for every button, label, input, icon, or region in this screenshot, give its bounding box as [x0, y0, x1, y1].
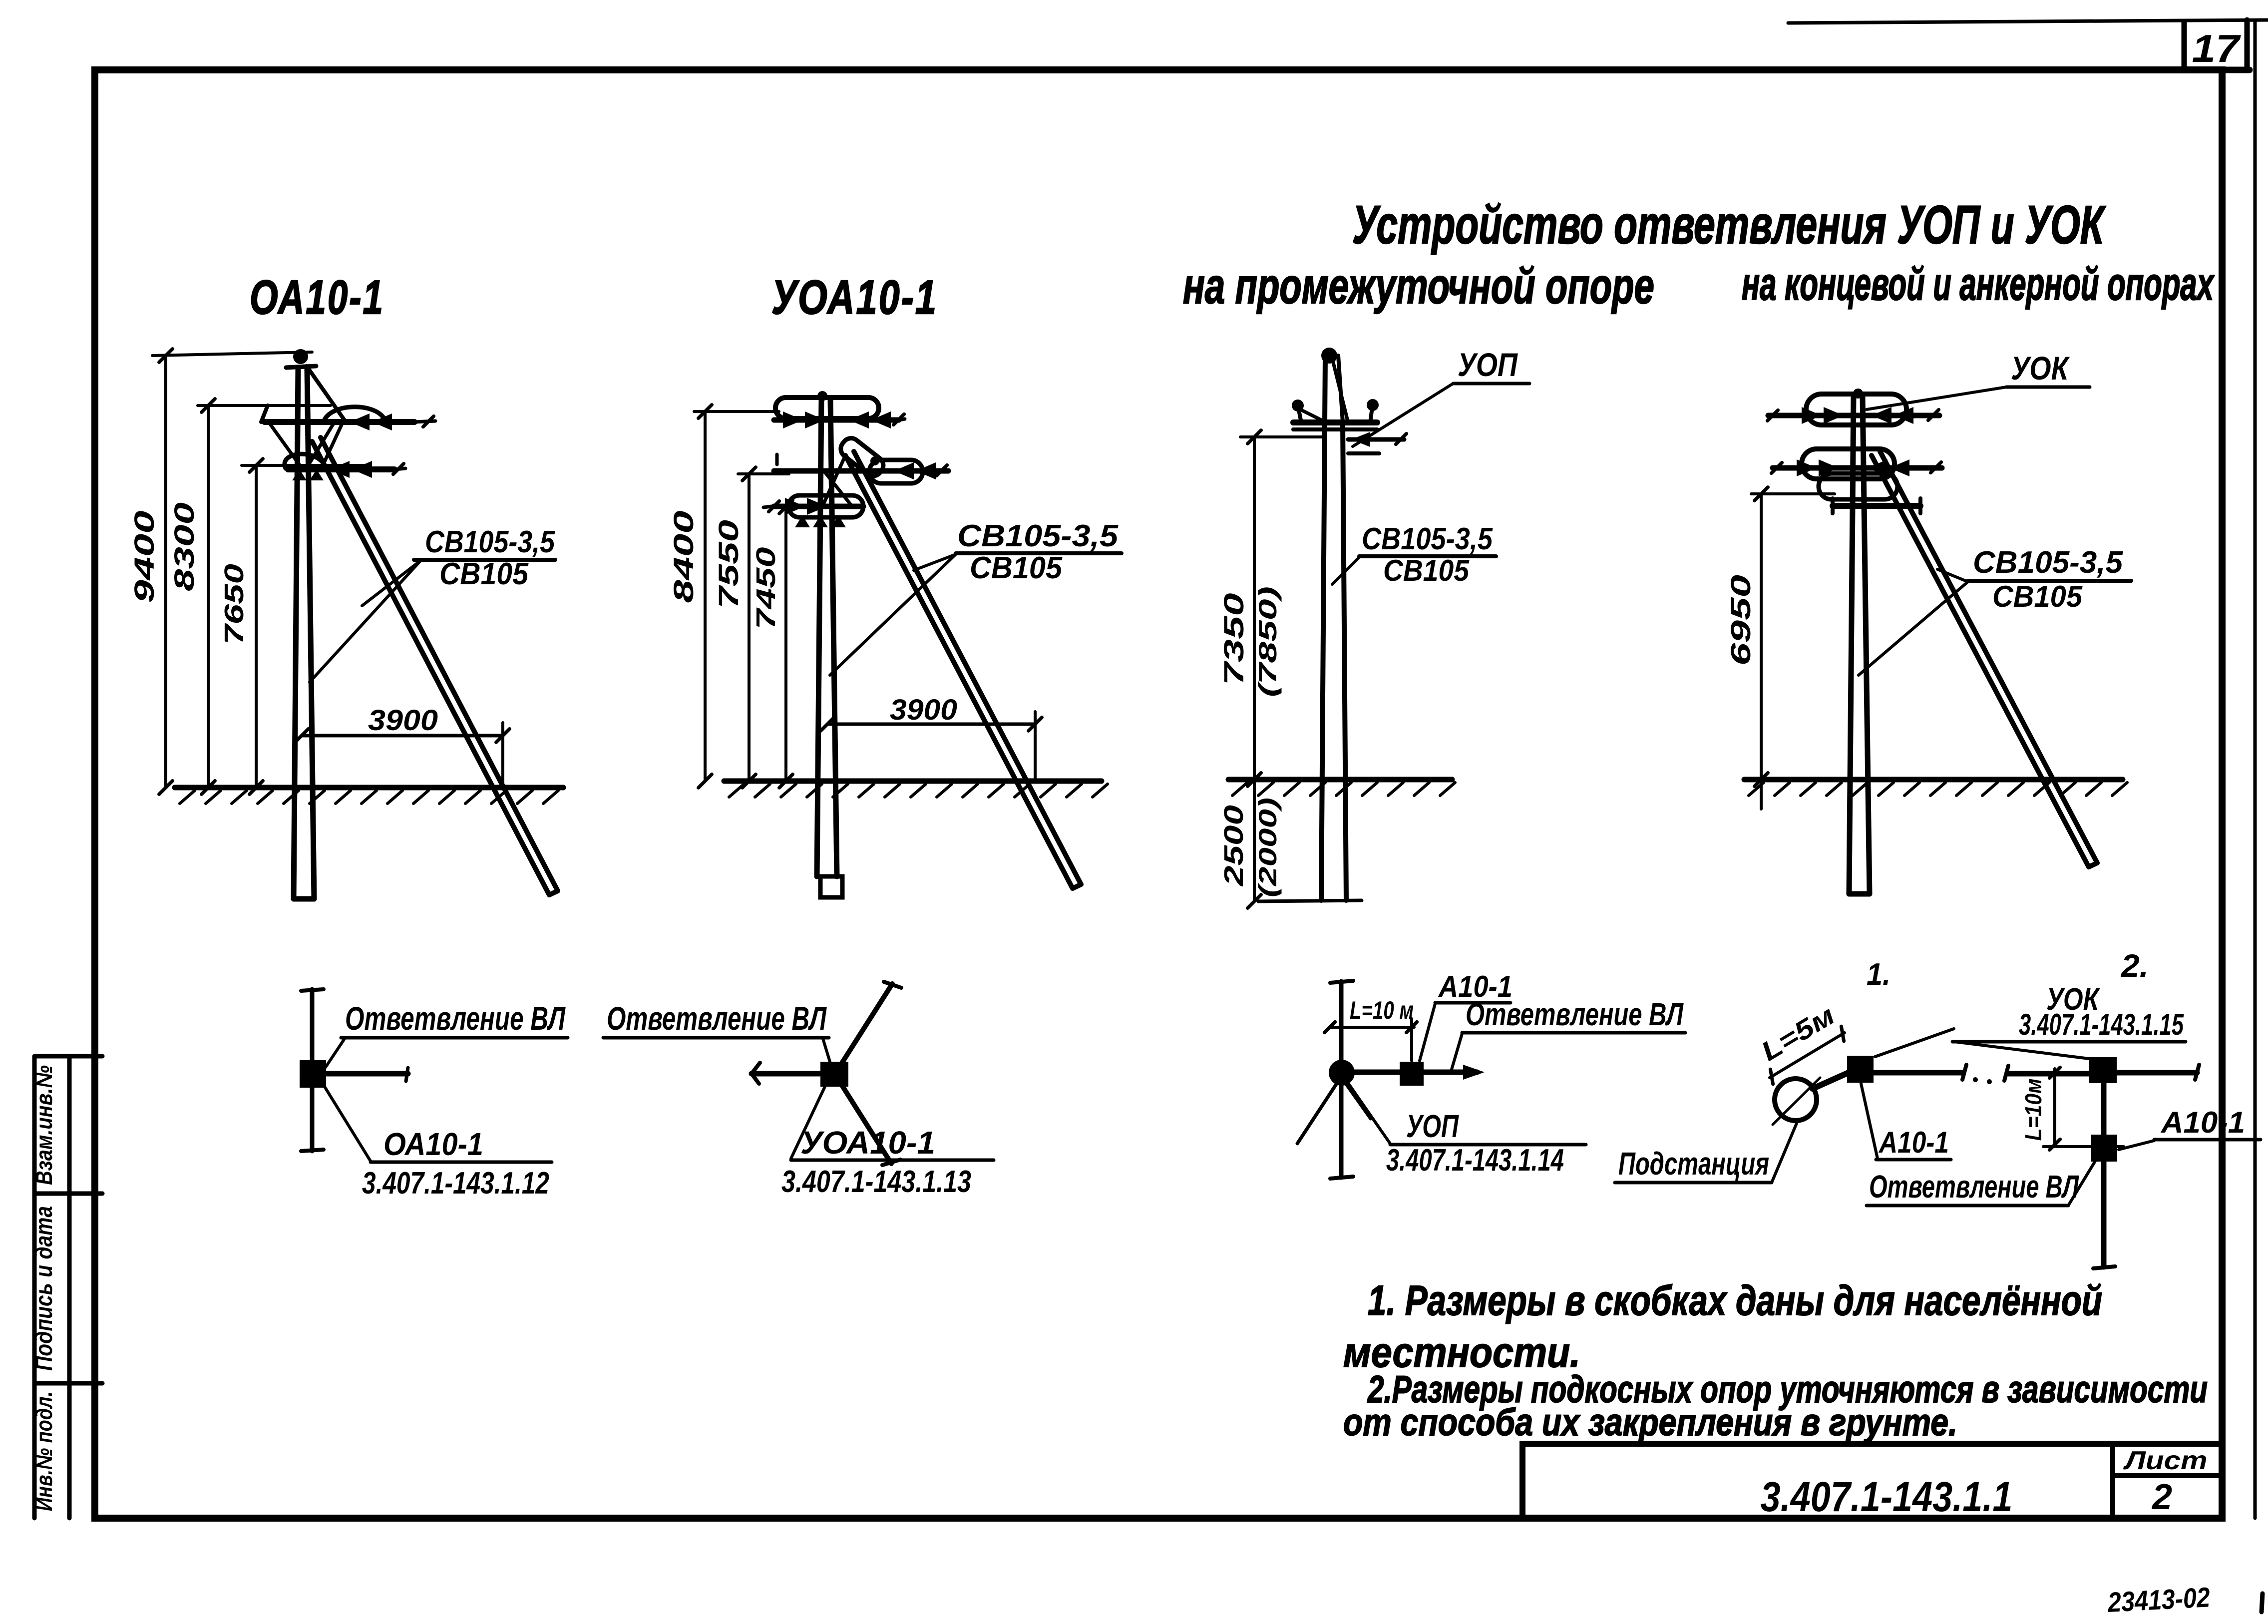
plan 4 square 2: [2089, 1057, 2117, 1083]
dimension 7350 vertical line: [1253, 437, 1256, 780]
pole 4 crossarm plate: [1833, 503, 1920, 509]
svg-text:2500: 2500: [1219, 805, 1249, 886]
svg-text:УОП: УОП: [1406, 1108, 1459, 1144]
dimension 3900 line: [302, 734, 503, 738]
pole 2 stand CB105: [817, 400, 837, 876]
dimension 2500 vertical line: [1253, 780, 1256, 901]
pole 1 crossarm 1 brace: [270, 423, 301, 466]
leader to strut 4: [1937, 569, 1968, 582]
svg-text:СВ105: СВ105: [970, 551, 1063, 585]
pole 2 middle wire loop: [869, 460, 923, 483]
pole 2 lower wire loop: [788, 495, 863, 517]
svg-text:9400: 9400: [128, 511, 160, 603]
svg-text:ОА10-1: ОА10-1: [383, 1126, 483, 1162]
dimension line L=10m: [1330, 1026, 1414, 1029]
dimension 8400 extension line: [694, 410, 779, 413]
leader plan 1 bottom: [325, 1087, 371, 1161]
svg-text:7550: 7550: [713, 520, 744, 609]
pole 1 crossarm 2 ties: [292, 469, 307, 480]
leader UOP plan: [1349, 1085, 1390, 1144]
svg-text:Ответвление ВЛ: Ответвление ВЛ: [1466, 996, 1684, 1032]
svg-text:УОА10-1: УОА10-1: [771, 271, 938, 324]
svg-text:3.407.1-143.1.12: 3.407.1-143.1.12: [362, 1166, 549, 1201]
sheet top edge line: [1788, 20, 2268, 23]
ground hatching pole 2: [729, 784, 1108, 797]
svg-text:8400: 8400: [668, 511, 699, 603]
pole 4 lower tie loop: [1819, 473, 1897, 499]
plan UOP line axis vertical: [1339, 981, 1344, 1178]
pole 1 crossarm 2 wire loop: [285, 454, 326, 468]
svg-text:2.: 2.: [2121, 948, 2149, 984]
pole 2 top wire arrows: [783, 411, 803, 428]
svg-text:на промежуточной опоре: на промежуточной опоре: [1183, 258, 1654, 314]
pole 1 crossarm level 1: [265, 419, 414, 425]
pole 4 level 2 wire loop: [1802, 449, 1894, 479]
leader to strut: [362, 560, 421, 606]
plan 4 square 1: [1847, 1056, 1874, 1083]
svg-text:СВ105-3,5: СВ105-3,5: [957, 519, 1119, 553]
svg-text:1.: 1.: [1867, 957, 1890, 992]
dimension 7450 vertical line: [784, 507, 787, 781]
pole 3 top brace: [1332, 359, 1348, 421]
pole 3 crossarm: [1293, 419, 1377, 425]
pole 2 strut attach cap: [837, 434, 887, 479]
dimension 6950 extension line: [1751, 492, 1835, 495]
svg-text:3.407.1-143.1.13: 3.407.1-143.1.13: [781, 1165, 971, 1199]
svg-text:Подпись и дата: Подпись и дата: [31, 1206, 57, 1371]
pole 4 strut CB105-3.5: [1872, 451, 2097, 867]
ground hatching pole 4: [1749, 783, 2127, 796]
pole 2 strut CB105-3.5: [845, 451, 1081, 888]
plan 4 square 3: [2091, 1135, 2117, 1162]
leader to strut 2: [914, 554, 956, 570]
plan UOA10-1 branch down right: [841, 1084, 891, 1164]
dimension line L=5m: [1770, 1033, 1845, 1078]
page number box: [2184, 20, 2247, 70]
svg-text:7450: 7450: [751, 547, 781, 630]
ground hatching pole 1: [180, 791, 558, 804]
plan UOA10-1 main line left: [752, 1071, 820, 1077]
pole 3 crossarm right insulator: [1370, 407, 1372, 422]
leader plan 2: [823, 1039, 830, 1062]
svg-text:Лист: Лист: [2123, 1446, 2208, 1475]
leader UOP: [1353, 384, 1453, 446]
pole 2 lower ties: [795, 515, 810, 527]
svg-text:СВ105-3,5: СВ105-3,5: [1973, 545, 2124, 580]
svg-text:СВ105: СВ105: [1992, 580, 2083, 613]
pole 4 level 1 crossarm wire: [1768, 413, 1939, 418]
svg-text:Инв.№ подл.: Инв.№ подл.: [31, 1391, 57, 1511]
pole 1 crossarm 1 wire loop: [324, 407, 385, 422]
svg-text:3.407.1-143.1.1: 3.407.1-143.1.1: [1761, 1473, 2013, 1520]
pole 2 lower crossarm wire: [774, 504, 863, 509]
pole 2 middle wire arrows: [894, 462, 914, 479]
pole 4 level 2 arrows: [1797, 459, 1817, 476]
dimension 8400 vertical line: [704, 411, 707, 781]
leader to pole: [310, 560, 421, 682]
svg-text:УОП: УОП: [1458, 346, 1518, 383]
svg-text:1. Размеры в скобках даны для: 1. Размеры в скобках даны для населённой: [1368, 1277, 2102, 1324]
svg-text:ОА10-1: ОА10-1: [250, 271, 384, 324]
svg-text:L=10 м: L=10 м: [1350, 996, 1414, 1024]
leader to pole 3: [1332, 557, 1359, 584]
plan UOP main line to right: [1354, 1070, 1477, 1075]
ground hatching pole 3: [1232, 783, 1455, 796]
pole 4 level 1 wire loop: [1806, 394, 1906, 425]
dimension line L=10m plan 4: [2053, 1069, 2056, 1147]
pole 1 crossarm 1 wire arrows: [350, 413, 370, 430]
dimension 3900 right extension: [501, 723, 504, 789]
dimension 9400 top extension line: [152, 352, 312, 356]
pole 2 top wire loop bracket: [775, 398, 879, 418]
plan 4 main line segment A: [1874, 1070, 1962, 1076]
substation diagonal: [1773, 1078, 1820, 1125]
pole 3 top insulator: [1321, 348, 1337, 364]
dimension 3900 extension pole 2: [1034, 712, 1037, 779]
bottom right registration tick: [2262, 1594, 2263, 1612]
leader UOK: [1867, 387, 2006, 409]
svg-text:3900: 3900: [368, 704, 438, 737]
pole 1 crossarm 2 arrows: [330, 461, 350, 478]
leader plan 2 label: [791, 1087, 825, 1159]
plan UOP pole circle: [1329, 1060, 1355, 1086]
leader plan 1 top: [326, 1039, 345, 1067]
plan UOA10-1 pole symbol square: [820, 1062, 848, 1087]
pole 2 bottom butt: [820, 876, 842, 897]
pole 1 jumper from insulator to crossarm: [307, 366, 344, 419]
svg-text:СВ105: СВ105: [1383, 554, 1470, 587]
dimension 7650 vertical line: [255, 465, 258, 788]
title block box: [1522, 1444, 2222, 1518]
plan OA10-1 branch line: [326, 1071, 408, 1077]
dimension 8300 vertical line: [207, 406, 210, 788]
pole 1 stand CB105: [294, 370, 314, 899]
plan 4 main line segment C: [2117, 1070, 2197, 1076]
pole 2 lower wire arrows: [785, 498, 805, 515]
leader UOK to square 1: [1875, 1029, 1954, 1057]
dimension 7650 extension line: [242, 464, 366, 467]
pole 3 branch wire: [1348, 437, 1404, 442]
plan UOP anchor square: [1400, 1062, 1424, 1086]
svg-text:7350: 7350: [1218, 593, 1249, 686]
dimension 9400 vertical line: [164, 356, 167, 788]
pole 3 bottom line: [1258, 900, 1362, 901]
svg-text:УОК: УОК: [2011, 350, 2070, 387]
dimension 7450 extension line: [775, 505, 799, 508]
plan 4 branch line down: [2101, 1083, 2107, 1267]
leader A10-1 middle: [1861, 1084, 1878, 1159]
leader otvetvlenie plan 3: [1451, 1034, 1462, 1071]
svg-text:А10-1: А10-1: [1878, 1126, 1949, 1159]
svg-text:2: 2: [2151, 1477, 2172, 1517]
dimension 6950 vertical line: [1760, 494, 1763, 780]
pole 4 level 2 crossarm wire: [1773, 465, 1942, 471]
pole 4 level 1 arrows: [1802, 407, 1822, 424]
ground line pole 4: [1744, 777, 2123, 783]
svg-text:от способа их закрепления в гр: от способа их закрепления в грунте.: [1343, 1401, 1957, 1444]
pole 1 top insulator: [293, 349, 308, 364]
plan OA10-1 pole symbol square: [300, 1060, 326, 1088]
svg-text:(7850): (7850): [1254, 586, 1282, 697]
svg-text:8300: 8300: [168, 502, 200, 591]
svg-text:3900: 3900: [890, 694, 957, 726]
svg-text:А10-1: А10-1: [2160, 1106, 2245, 1139]
svg-text:УОА10-1: УОА10-1: [800, 1125, 935, 1161]
ground line pole 2: [724, 779, 1102, 784]
leader podstantsiya: [1772, 1122, 1797, 1183]
pole 2 top crossarm wire: [774, 417, 899, 423]
svg-text:17: 17: [2192, 26, 2242, 70]
plan UOA10-1 branch up right: [839, 984, 892, 1068]
leader A10-1 plan 3: [1420, 1004, 1435, 1061]
dimension 8300 extension line: [198, 404, 331, 407]
pole 3 crossarm left insulator: [1298, 407, 1301, 422]
leader to pole 2: [830, 554, 956, 675]
plan OA10-1 pole axis line: [310, 989, 315, 1151]
svg-text:Подстанция: Подстанция: [1618, 1146, 1769, 1182]
svg-text:7650: 7650: [219, 564, 249, 645]
feeder substation to square 1: [1813, 1072, 1851, 1089]
leader to pole 4: [1859, 582, 1968, 675]
svg-text:3.407.1-143.1.15: 3.407.1-143.1.15: [2019, 1008, 2184, 1041]
pole 3 stand CB105: [1321, 356, 1346, 900]
plan 4 main line segment B: [2008, 1071, 2091, 1077]
pole 1 crossarm level 2: [288, 466, 394, 472]
svg-text:(2000): (2000): [1254, 798, 1282, 897]
svg-text:Ответвление ВЛ: Ответвление ВЛ: [607, 1000, 827, 1037]
svg-text:23413-02: 23413-02: [2106, 1581, 2211, 1618]
svg-text:СВ105: СВ105: [439, 557, 529, 591]
svg-text:Ответвление ВЛ: Ответвление ВЛ: [1869, 1169, 2079, 1205]
pole 2 brace X: [823, 455, 845, 505]
substation circle: [1775, 1079, 1817, 1121]
dimension 7550 vertical line: [748, 474, 751, 781]
left stamp table: [34, 1056, 102, 1518]
pole 1 strut CB105-3.5: [312, 437, 558, 895]
dimension 3900 line pole 2: [827, 723, 1035, 726]
ground line pole 3: [1228, 777, 1452, 783]
svg-text:6950: 6950: [1725, 575, 1756, 666]
ground line pole 1: [175, 785, 563, 791]
sheet right edge line: [2254, 22, 2257, 1518]
svg-text:Устройство ответвления УОП и У: Устройство ответвления УОП и УОК: [1352, 194, 2106, 255]
svg-text:3.407.1-143.1.14: 3.407.1-143.1.14: [1386, 1143, 1564, 1178]
dimension 7350 extension line: [1240, 435, 1323, 438]
svg-text:Взам.инв.№: Взам.инв.№: [31, 1065, 57, 1185]
svg-text:L=10м: L=10м: [2020, 1079, 2046, 1141]
plan UOP guy lines: [1297, 1081, 1338, 1144]
svg-text:на концевой и анкерной опорах: на концевой и анкерной опорах: [1742, 259, 2215, 310]
dimension 7550 extension line: [738, 472, 789, 475]
leader otvetvlenie VL plan 4: [2068, 1161, 2095, 1206]
svg-text:СВ105-3,5: СВ105-3,5: [425, 525, 555, 559]
pole 4 stand CB105: [1849, 397, 1870, 894]
leader A10-1 right: [2119, 1141, 2154, 1150]
svg-text:Ответвление ВЛ: Ответвление ВЛ: [345, 1000, 566, 1037]
pole 2 middle crossarm wire: [774, 468, 948, 474]
leader UOK to square 2: [1954, 1042, 2089, 1059]
plan 4 line break dots: [1973, 1077, 1978, 1082]
svg-text:СВ105-3,5: СВ105-3,5: [1362, 522, 1493, 556]
